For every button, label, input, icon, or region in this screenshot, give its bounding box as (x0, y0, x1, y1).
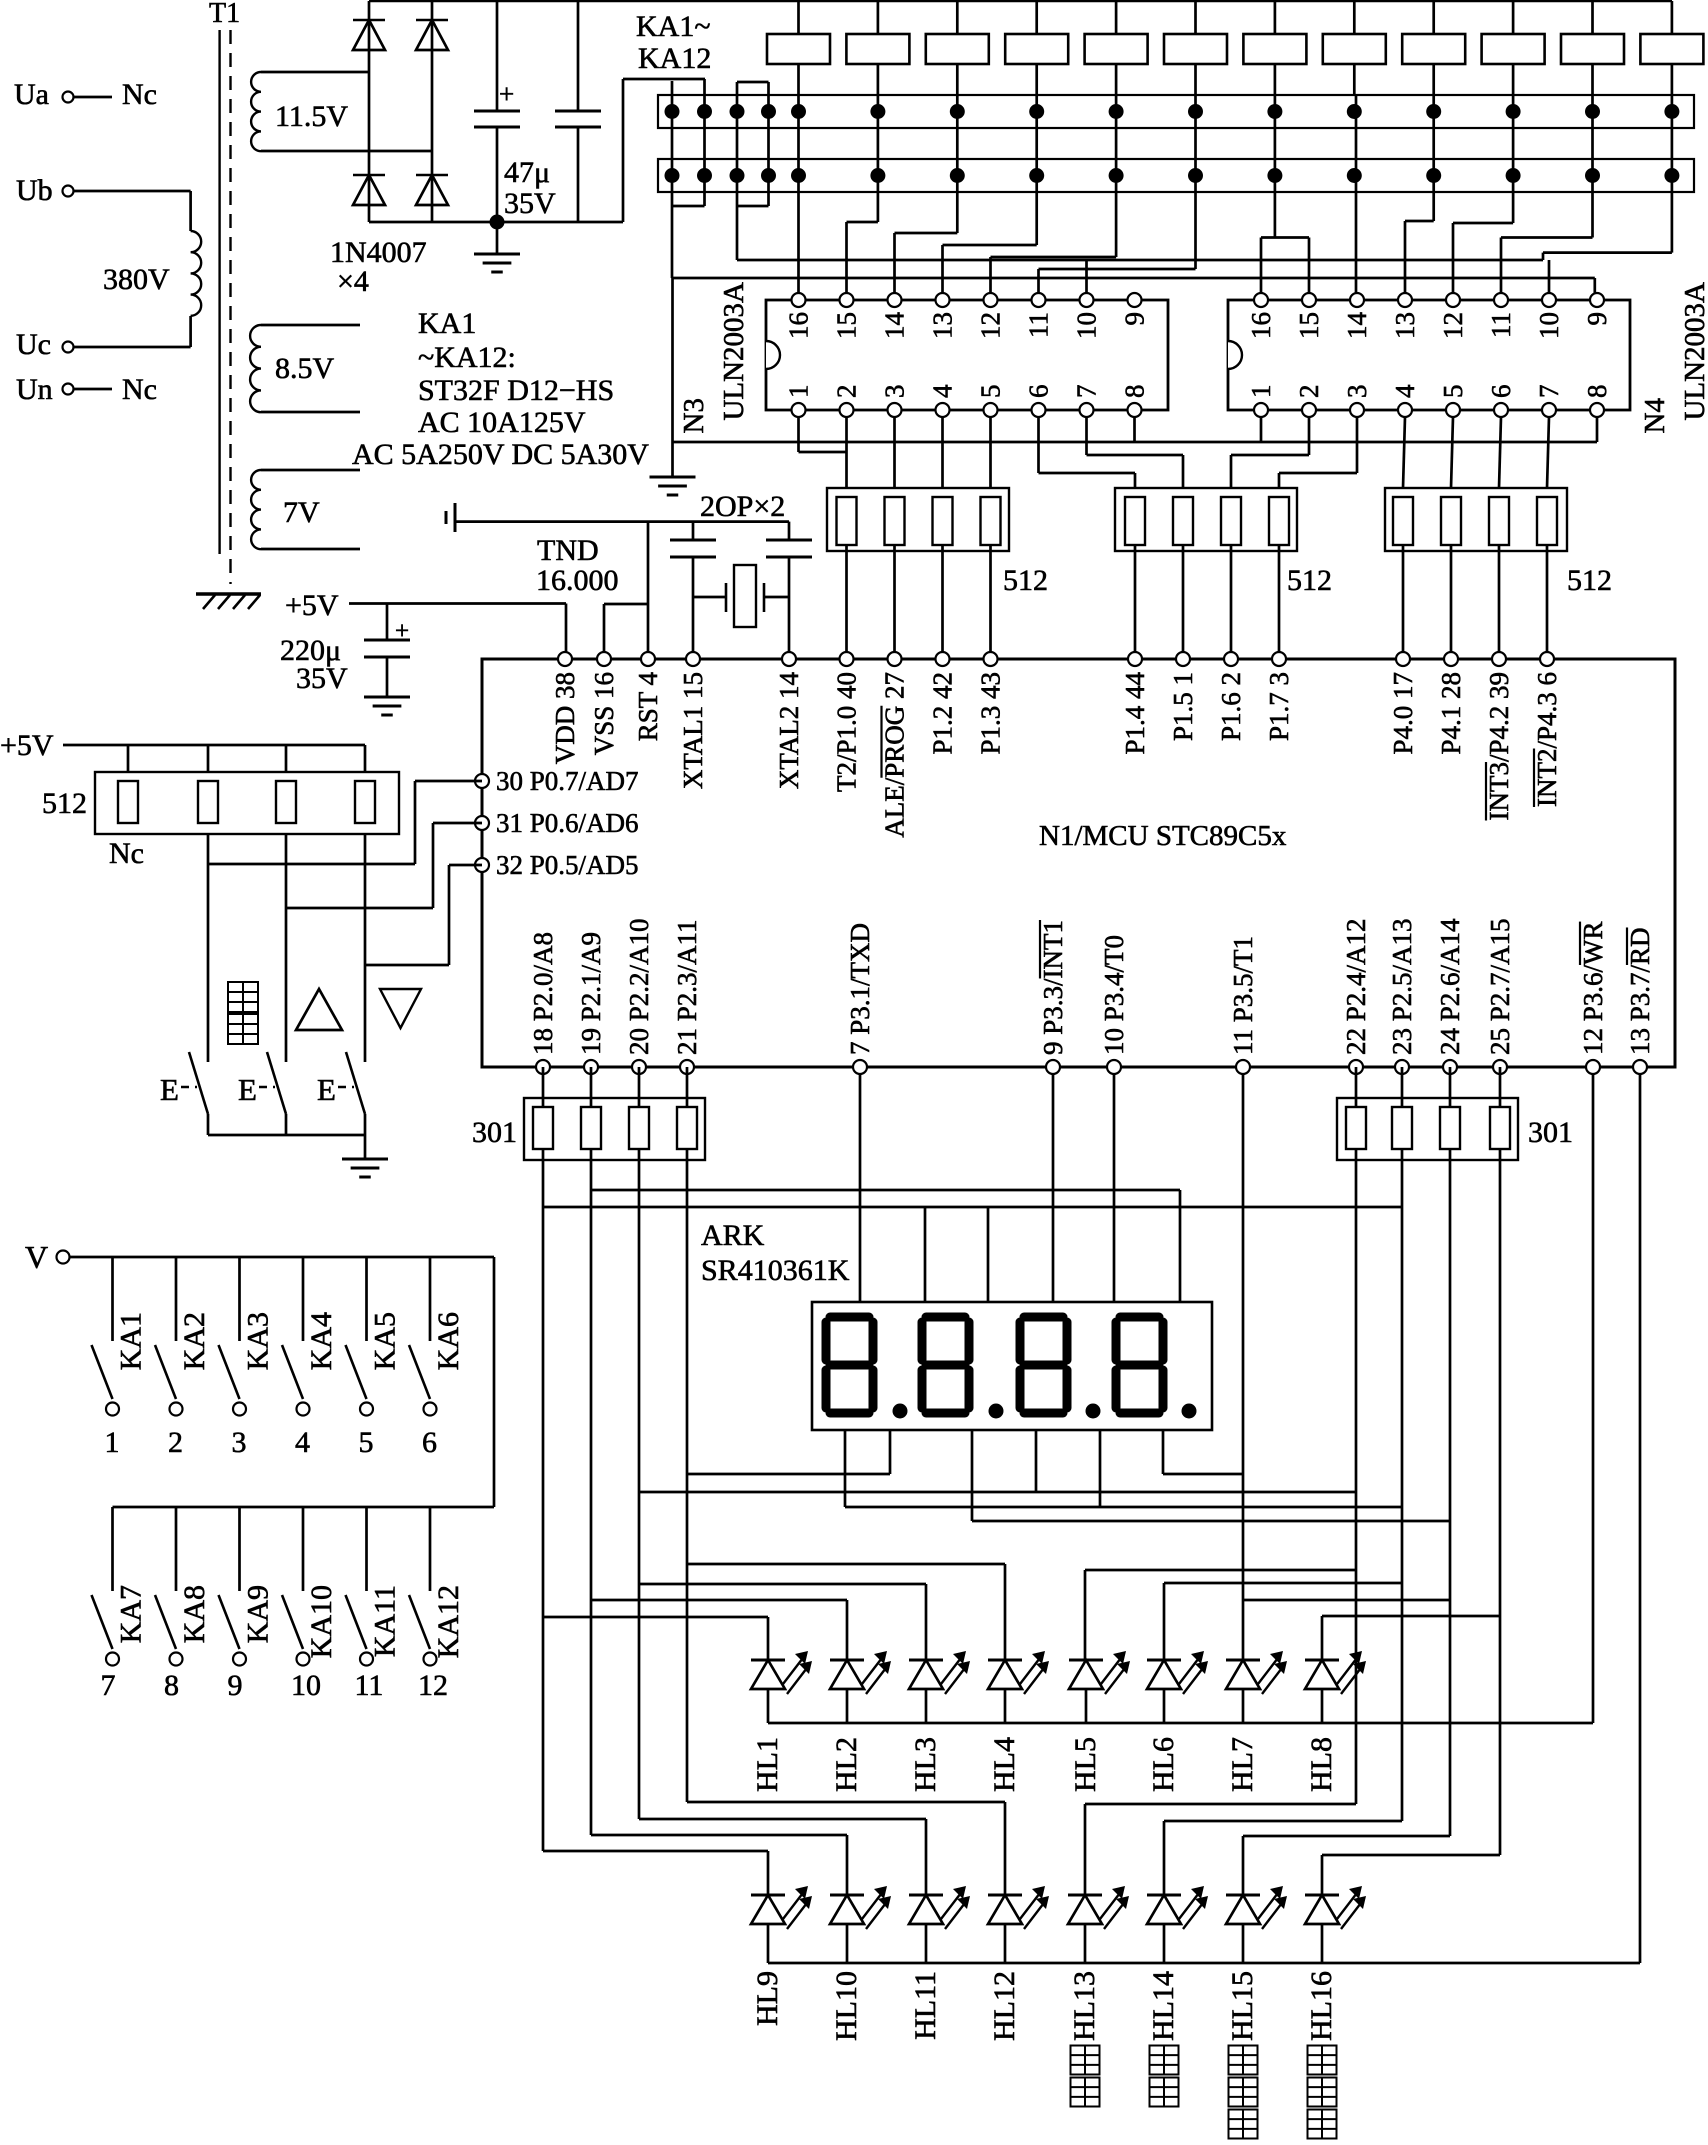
svg-text:KA3: KA3 (242, 1312, 275, 1370)
svg-text:HL14: HL14 (1147, 1971, 1180, 2041)
svg-text:35V: 35V (296, 662, 348, 695)
svg-text:KA7: KA7 (115, 1585, 148, 1643)
svg-text:P1.4 44: P1.4 44 (1120, 672, 1150, 755)
svg-text:Ua: Ua (14, 78, 49, 111)
svg-text:7: 7 (1534, 385, 1564, 399)
svg-text:Nc: Nc (122, 373, 157, 406)
svg-text:21 P2.3/A11: 21 P2.3/A11 (672, 919, 702, 1055)
svg-text:1: 1 (105, 1426, 120, 1459)
svg-text:KA5: KA5 (369, 1312, 402, 1370)
svg-text:47μ: 47μ (504, 156, 550, 189)
svg-text:10 P3.4/T0: 10 P3.4/T0 (1099, 935, 1129, 1055)
svg-text:E: E (160, 1072, 179, 1107)
svg-text:19 P2.1/A9: 19 P2.1/A9 (576, 932, 606, 1055)
svg-text:HL3: HL3 (909, 1737, 942, 1792)
svg-text:9 P3.3/INT1: 9 P3.3/INT1 (1038, 920, 1068, 1055)
svg-text:HL12: HL12 (988, 1971, 1021, 2041)
svg-text:8.5V: 8.5V (275, 352, 335, 385)
svg-text:4: 4 (1390, 384, 1420, 398)
svg-text:ST32F D12−HS: ST32F D12−HS (418, 374, 614, 407)
svg-text:14: 14 (880, 312, 910, 340)
svg-text:9: 9 (1582, 312, 1612, 326)
svg-text:ARK: ARK (701, 1219, 765, 1252)
svg-text:24 P2.6/A14: 24 P2.6/A14 (1435, 918, 1465, 1055)
svg-text:11.5V: 11.5V (275, 100, 348, 133)
svg-text:32 P0.5/AD5: 32 P0.5/AD5 (496, 850, 639, 880)
svg-text:9: 9 (1120, 312, 1150, 326)
svg-text:V: V (25, 1239, 48, 1275)
svg-text:KA9: KA9 (242, 1585, 275, 1643)
svg-text:12 P3.6/WR: 12 P3.6/WR (1578, 921, 1608, 1055)
svg-text:4: 4 (295, 1426, 310, 1459)
svg-text:15: 15 (1294, 312, 1324, 339)
svg-text:2: 2 (1294, 385, 1324, 399)
svg-text:KA1: KA1 (115, 1312, 148, 1370)
svg-text:22 P2.4/A12: 22 P2.4/A12 (1341, 918, 1371, 1055)
svg-text:INT3/P4.2 39: INT3/P4.2 39 (1484, 672, 1514, 821)
svg-text:Nc: Nc (122, 78, 157, 111)
svg-text:Ub: Ub (16, 174, 53, 207)
svg-text:KA1: KA1 (418, 307, 476, 340)
svg-text:+5V: +5V (285, 589, 339, 622)
svg-text:2OP×2: 2OP×2 (700, 490, 785, 523)
svg-text:16: 16 (784, 312, 814, 339)
svg-text:AC 10A125V: AC 10A125V (418, 406, 586, 439)
svg-text:11: 11 (1486, 312, 1516, 338)
svg-text:N3: N3 (678, 398, 710, 433)
svg-text:12: 12 (976, 312, 1006, 339)
svg-text:11: 11 (355, 1669, 384, 1702)
svg-text:10: 10 (291, 1669, 321, 1702)
svg-text:5: 5 (359, 1426, 374, 1459)
svg-text:KA4: KA4 (305, 1312, 338, 1370)
svg-text:KA6: KA6 (432, 1312, 465, 1370)
svg-text:2: 2 (832, 385, 862, 399)
svg-text:35V: 35V (504, 187, 556, 220)
svg-text:20 P2.2/A10: 20 P2.2/A10 (624, 918, 654, 1055)
svg-text:Uc: Uc (16, 328, 51, 361)
svg-text:31 P0.6/AD6: 31 P0.6/AD6 (496, 808, 639, 838)
svg-text:23 P2.5/A13: 23 P2.5/A13 (1387, 918, 1417, 1055)
svg-text:30 P0.7/AD7: 30 P0.7/AD7 (496, 766, 639, 796)
svg-text:KA12: KA12 (432, 1585, 465, 1658)
svg-text:8: 8 (1120, 385, 1150, 399)
svg-text:P1.6 2: P1.6 2 (1216, 672, 1246, 741)
svg-text:HL11: HL11 (909, 1971, 942, 2040)
svg-text:10: 10 (1072, 312, 1102, 339)
svg-text:512: 512 (1287, 564, 1332, 597)
svg-text:HL8: HL8 (1305, 1737, 1338, 1792)
svg-text:ULN2003A: ULN2003A (1679, 282, 1708, 421)
svg-text:+5V: +5V (0, 729, 54, 762)
svg-text:301: 301 (1528, 1116, 1573, 1149)
svg-text:VSS 16: VSS 16 (589, 672, 619, 755)
svg-text:TND: TND (537, 534, 599, 567)
svg-text:KA12: KA12 (638, 42, 711, 75)
svg-text:3: 3 (232, 1426, 247, 1459)
svg-text:KA1~: KA1~ (636, 10, 711, 43)
svg-text:12: 12 (1438, 312, 1468, 339)
svg-text:INT2/P4.3 6: INT2/P4.3 6 (1532, 672, 1562, 807)
svg-text:6: 6 (1024, 385, 1054, 399)
svg-text:6: 6 (1486, 385, 1516, 399)
svg-text:×4: ×4 (337, 265, 369, 298)
svg-text:+: + (395, 618, 409, 645)
svg-text:RST 4: RST 4 (633, 672, 663, 742)
svg-text:3: 3 (1342, 385, 1372, 399)
svg-text:HL6: HL6 (1147, 1737, 1180, 1792)
svg-text:HL7: HL7 (1226, 1737, 1259, 1792)
svg-text:7 P3.1/TXD: 7 P3.1/TXD (845, 923, 875, 1055)
svg-text:15: 15 (832, 312, 862, 339)
svg-text:AC 5A250V DC 5A30V: AC 5A250V DC 5A30V (352, 438, 649, 471)
svg-text:HL10: HL10 (830, 1971, 863, 2041)
svg-text:KA2: KA2 (178, 1312, 211, 1370)
svg-text:E: E (317, 1072, 336, 1107)
svg-text:KA11: KA11 (369, 1585, 402, 1657)
svg-text:11: 11 (1024, 312, 1054, 338)
svg-text:+: + (499, 79, 514, 109)
svg-text:KA8: KA8 (178, 1585, 211, 1643)
svg-text:13 P3.7/RD: 13 P3.7/RD (1625, 927, 1655, 1055)
svg-text:Un: Un (16, 373, 53, 406)
svg-text:7: 7 (101, 1669, 116, 1702)
svg-text:11 P3.5/T1: 11 P3.5/T1 (1228, 936, 1258, 1055)
svg-text:XTAL2 14: XTAL2 14 (774, 672, 804, 790)
svg-text:5: 5 (976, 385, 1006, 399)
svg-text:8: 8 (164, 1669, 179, 1702)
svg-text:2: 2 (168, 1426, 183, 1459)
svg-text:3: 3 (880, 385, 910, 399)
svg-text:1: 1 (784, 385, 814, 399)
svg-text:HL5: HL5 (1069, 1737, 1102, 1792)
svg-text:301: 301 (472, 1116, 517, 1149)
svg-text:512: 512 (42, 787, 87, 820)
svg-text:18 P2.0/A8: 18 P2.0/A8 (528, 932, 558, 1055)
svg-text:HL2: HL2 (830, 1737, 863, 1792)
svg-text:ALE/PROG 27: ALE/PROG 27 (880, 672, 910, 838)
svg-text:XTAL1 15: XTAL1 15 (678, 672, 708, 789)
svg-text:16.000: 16.000 (536, 564, 619, 597)
svg-text:ULN2003A: ULN2003A (718, 282, 750, 421)
svg-text:P1.2 42: P1.2 42 (928, 672, 958, 755)
svg-text:Nc: Nc (109, 837, 144, 870)
svg-text:E: E (238, 1072, 257, 1107)
svg-text:~KA12:: ~KA12: (418, 341, 516, 374)
svg-text:KA10: KA10 (305, 1585, 338, 1658)
svg-text:10: 10 (1534, 312, 1564, 339)
svg-text:1: 1 (1246, 385, 1276, 399)
svg-text:HL15: HL15 (1226, 1971, 1259, 2041)
svg-text:4: 4 (928, 384, 958, 398)
svg-text:512: 512 (1003, 564, 1048, 597)
svg-text:5: 5 (1438, 385, 1468, 399)
svg-text:P4.0 17: P4.0 17 (1388, 672, 1418, 755)
svg-text:13: 13 (928, 312, 958, 339)
svg-text:HL1: HL1 (751, 1737, 784, 1792)
svg-text:8: 8 (1582, 385, 1612, 399)
svg-text:SR410361K: SR410361K (701, 1254, 850, 1287)
svg-text:512: 512 (1567, 564, 1612, 597)
svg-text:7V: 7V (283, 496, 320, 529)
svg-text:14: 14 (1342, 312, 1372, 340)
svg-text:13: 13 (1390, 312, 1420, 339)
svg-text:T1: T1 (209, 0, 240, 29)
svg-text:HL4: HL4 (988, 1737, 1021, 1792)
svg-text:380V: 380V (103, 263, 170, 296)
svg-text:P4.1 28: P4.1 28 (1436, 672, 1466, 755)
svg-text:T2/P1.0 40: T2/P1.0 40 (832, 672, 862, 792)
svg-text:P1.7 3: P1.7 3 (1264, 672, 1294, 741)
svg-text:HL16: HL16 (1305, 1971, 1338, 2041)
svg-text:HL13: HL13 (1068, 1971, 1101, 2041)
svg-text:N1/MCU STC89C5x: N1/MCU STC89C5x (1039, 820, 1287, 852)
svg-text:VDD 38: VDD 38 (550, 672, 580, 764)
svg-text:N4: N4 (1639, 398, 1671, 434)
svg-text:P1.5 1: P1.5 1 (1168, 672, 1198, 741)
svg-text:HL9: HL9 (751, 1971, 784, 2026)
svg-text:6: 6 (422, 1426, 437, 1459)
svg-text:P1.3 43: P1.3 43 (976, 672, 1006, 755)
svg-text:25 P2.7/A15: 25 P2.7/A15 (1485, 918, 1515, 1055)
svg-text:16: 16 (1246, 312, 1276, 339)
svg-text:9: 9 (228, 1669, 243, 1702)
svg-text:7: 7 (1072, 385, 1102, 399)
svg-text:12: 12 (418, 1669, 448, 1702)
